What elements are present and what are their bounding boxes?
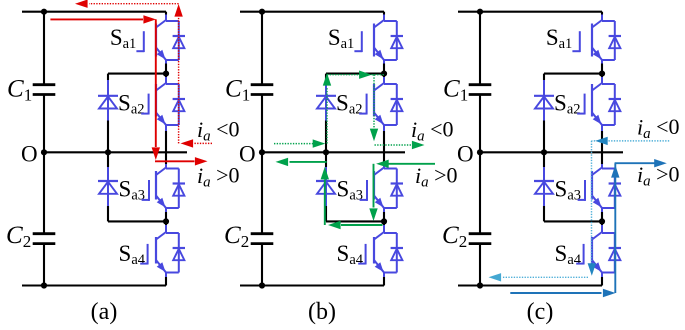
junction DC+ rail a [41,9,47,15]
clamp diode Dc6 (lower clamp) [534,167,554,206]
wire DC+ top rail a [22,11,166,13]
gate lead of Sa4 [140,244,147,265]
current path ia>0 output arrow (a) [155,157,208,165]
capacitor C2 b [251,234,274,244]
transistor Sc2 (IGBT) [592,83,615,125]
node O junction b [259,149,265,155]
gate lead of Sa3 [142,180,149,201]
wire P2 to Sb4 b [383,221,385,233]
current path ia<0 vertical through diodes (a) [174,4,182,143]
diode Db1 antiparallel with Sb1 [391,21,403,60]
wire P1 junction to clamp branch a [108,73,166,75]
capacitor C2 c [469,234,492,244]
current path ia>0 output arrow (c) [615,159,667,167]
junction P2 b [381,218,387,224]
current path up clamp diode Db5 dashed (b) [323,73,331,144]
transistor Sb1 (IGBT) [374,20,397,60]
transistor Sa4 (IGBT) [156,232,179,273]
wire neutral O to output a [44,151,187,153]
gate lead of Sa1 [136,31,143,52]
junction DC+ rail c [477,9,483,15]
diode Da2 antiparallel with Sa2 [173,84,185,125]
wire clamp branch upper c [543,74,545,80]
clamp diode Db6 (lower clamp) [316,167,336,206]
wire P2 junction to clamp branch a [108,220,166,222]
wire P1 to Sc2 c [601,74,603,84]
junction DC- rail a [41,282,47,288]
clamp diode Da5 (upper clamp) [98,80,118,121]
wire left rail middle c [479,95,481,234]
wire clamp branch lower c [543,206,545,221]
diode Da3 antiparallel with Sa3 [173,169,185,209]
junction P1 c [599,71,605,77]
gate lead of Sa2 [141,94,148,115]
wire Sc3 to P2 c [601,208,603,221]
gate lead of Sa3 [578,180,585,201]
diode Db3 antiparallel with Sb3 [391,169,403,209]
wire Sc4 emitter to DC- c [601,273,603,286]
wire clamp branch middle b [325,121,327,168]
wire clamp branch lower b [325,206,327,221]
diode Dc4 antiparallel with Sc4 [609,233,621,273]
gate lead of Sa3 [360,180,367,201]
wire left DC-link rail upper a [43,12,45,85]
wire DC- bottom rail b [240,284,384,286]
current path ia>0 vertical through Sa1 Sa2 (a) [152,19,160,160]
svg-text:(a): (a) [91,299,118,325]
clamp diode Dc5 (upper clamp) [534,80,554,121]
diode Da4 antiparallel with Sa4 [173,233,185,273]
wire clamp branch middle a [107,121,109,168]
diode Db4 antiparallel with Sb4 [391,233,403,273]
junction P2 a [163,218,169,224]
transistor Sc3 (IGBT) [592,168,615,209]
current path ia<0 bottom return dashed (c) [489,273,589,281]
wire Sb4 emitter to DC- b [383,273,385,286]
wire P1 to Sa2 a [165,74,167,84]
current path ia>0 top horizontal (a) [50,15,156,23]
wire Sb2 emitter to output b [383,125,385,164]
wire P2 to Sa4 a [165,221,167,233]
transistor Sa3 (IGBT) [156,168,179,209]
node O junction a [41,149,47,155]
capacitor C1 a [33,85,56,95]
wire collector Sa1 a [165,12,167,21]
capacitor C1 b [251,85,274,95]
current path exit dashed (b) [375,141,425,149]
svg-text:O: O [21,142,38,167]
gate lead of Sa1 [354,31,361,52]
capacitor C2 a [33,234,56,244]
current path down Sb2 dashed (b) [370,75,378,142]
current path ia<0 top return (a) [75,0,179,8]
gate lead of Sa4 [358,244,365,265]
wire output to Sa3 a [165,164,167,169]
svg-text:(b): (b) [308,299,336,325]
junction DC- rail c [477,282,483,288]
node O junction c [477,149,483,155]
wire neutral O to output b [262,151,405,153]
wire Sa2 emitter to output a [165,125,167,164]
gate lead of Sa2 [359,94,366,115]
junction P1 a [163,71,169,77]
wire P2 to Sc4 c [601,221,603,233]
svg-text:(c): (c) [527,299,554,325]
current path ia>0 up antiparallel diodes (c) [611,163,619,293]
wire Sb1-Sb2 junction P1 b [383,60,385,74]
wire DC+ top rail b [240,11,384,13]
clamp diode Da6 (lower clamp) [98,167,118,206]
svg-text:O: O [239,142,256,167]
wire output to Sc3 c [601,164,603,169]
current path P2 leftward solid (b) [328,221,383,229]
wire Sc1-Sc2 junction P1 c [601,60,603,74]
wire clamp branch lower a [107,206,109,221]
wire P2 junction to clamp branch c [544,220,602,222]
transistor Sc1 (IGBT) [592,20,615,60]
wire left rail middle b [261,95,263,234]
transistor Sb4 (IGBT) [374,232,397,273]
wire DC- bottom rail a [22,284,166,286]
junction DC- rail b [259,282,265,288]
transistor Sc4 (IGBT) [592,232,615,273]
current path ia<0 entry dashed (c) [592,137,670,145]
current path ia<0 down Sc3 Sc4 dashed (c) [588,141,596,276]
transistor Sb3 (IGBT) [374,168,397,209]
wire clamp branch upper b [325,74,327,80]
transistor Sa2 (IGBT) [156,83,179,125]
wire DC+ top rail c [458,11,602,13]
wire P1 junction to clamp branch b [326,73,384,75]
diode Da1 antiparallel with Sa1 [173,21,185,60]
current path to neutral solid (b) [276,158,327,166]
junction clamp branch / neutral c [541,149,547,155]
wire left rail lower a [43,244,45,286]
junction DC+ rail b [259,9,265,15]
wire Sa1-Sa2 junction P1 a [165,60,167,74]
current path ia>0 bottom horizontal (c) [510,289,615,297]
wire left DC-link rail upper c [479,12,481,85]
junction clamp branch / neutral b [323,149,329,155]
capacitor C1 c [469,85,492,95]
diode Db2 antiparallel with Sb2 [391,84,403,125]
wire collector Sb1 b [383,12,385,21]
current path entry solid (b) [376,160,435,168]
gate lead of Sa2 [577,94,584,115]
junction P2 c [599,218,605,224]
current path P1 horizontal dashed (b) [327,71,384,79]
wire left DC-link rail upper b [261,12,263,85]
clamp diode Db5 (upper clamp) [316,80,336,121]
wire left rail middle a [43,95,45,234]
junction clamp branch / neutral a [105,149,111,155]
wire Sa4 emitter to DC- a [165,273,167,286]
wire collector Sc1 c [601,12,603,21]
diode Dc3 antiparallel with Sc3 [609,169,621,209]
transistor Sb2 (IGBT) [374,83,397,125]
transistor Sa1 (IGBT) [156,20,179,60]
wire DC- bottom rail c [458,284,602,286]
wire P1 junction to clamp branch c [544,73,602,75]
gate lead of Sa1 [572,31,579,52]
wire Sc2 emitter to output c [601,125,603,164]
svg-text:O: O [457,142,474,167]
diode Dc1 antiparallel with Sc1 [609,21,621,60]
current path down Sb3 solid (b) [369,164,377,221]
wire output to Sb3 b [383,164,385,169]
current path ia<0 entry arrow (a) [181,139,213,147]
gate lead of Sa4 [576,244,583,265]
junction P1 b [381,71,387,77]
wire Sb3 to P2 b [383,208,385,221]
wire clamp branch upper a [107,74,109,80]
wire P1 to Sb2 b [383,74,385,84]
current path up clamp diode Db6 solid (b) [321,167,329,225]
current path neutral to branch dashed (b) [274,139,325,147]
wire neutral O to output c [480,151,623,153]
wire clamp branch middle c [543,121,545,168]
wire P2 junction to clamp branch b [326,220,384,222]
diode Dc2 antiparallel with Sc2 [609,84,621,125]
wire Sa3 to P2 a [165,208,167,221]
wire left rail lower b [261,244,263,286]
wire left rail lower c [479,244,481,286]
